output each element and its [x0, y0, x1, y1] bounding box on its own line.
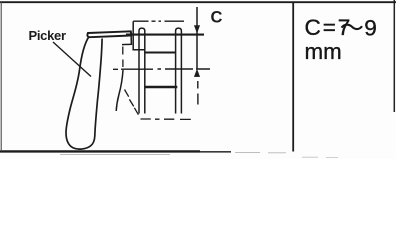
svg-text:mm: mm: [305, 39, 342, 64]
flange right-end drop: [122, 32, 131, 45]
svg-text:9: 9: [364, 15, 377, 40]
hidden outline dashed bottom: [141, 118, 191, 120]
frame top border: [0, 1, 396, 3]
frame bottom border: [0, 150, 200, 152]
dimension arrow top: [194, 26, 199, 33]
spec tilde: [342, 25, 363, 29]
hidden outline dashed left vertical: [122, 47, 124, 68]
svg-text:C: C: [211, 9, 223, 27]
svg-text:Picker: Picker: [29, 28, 67, 43]
left rail: [139, 28, 145, 113]
dimension line extension dash-dot: [197, 81, 199, 105]
table divider: [292, 2, 294, 152]
hidden outline dashed diagonal: [125, 90, 139, 115]
frame left border: [0, 2, 2, 150]
step to left rail: [133, 49, 139, 51]
center dash-dot line: [113, 68, 210, 70]
dimension line C: [196, 7, 198, 69]
hidden body top dash-dot line: [133, 20, 184, 22]
picker handle body: [66, 37, 102, 150]
picker leader line: [53, 42, 91, 77]
upper rung: [145, 52, 176, 54]
picker finger solid curve: [116, 70, 123, 111]
frame right border: [393, 0, 395, 112]
svg-text:C=7: C=7: [305, 15, 353, 40]
lower rung: [145, 86, 178, 89]
picker top flange: [87, 31, 131, 37]
bottom border scan shadow: [60, 153, 286, 155]
dimension arrow bottom: [194, 70, 199, 77]
hidden body corner bracket: [133, 21, 145, 49]
top datum line: [126, 34, 204, 36]
right rail: [176, 28, 182, 113]
